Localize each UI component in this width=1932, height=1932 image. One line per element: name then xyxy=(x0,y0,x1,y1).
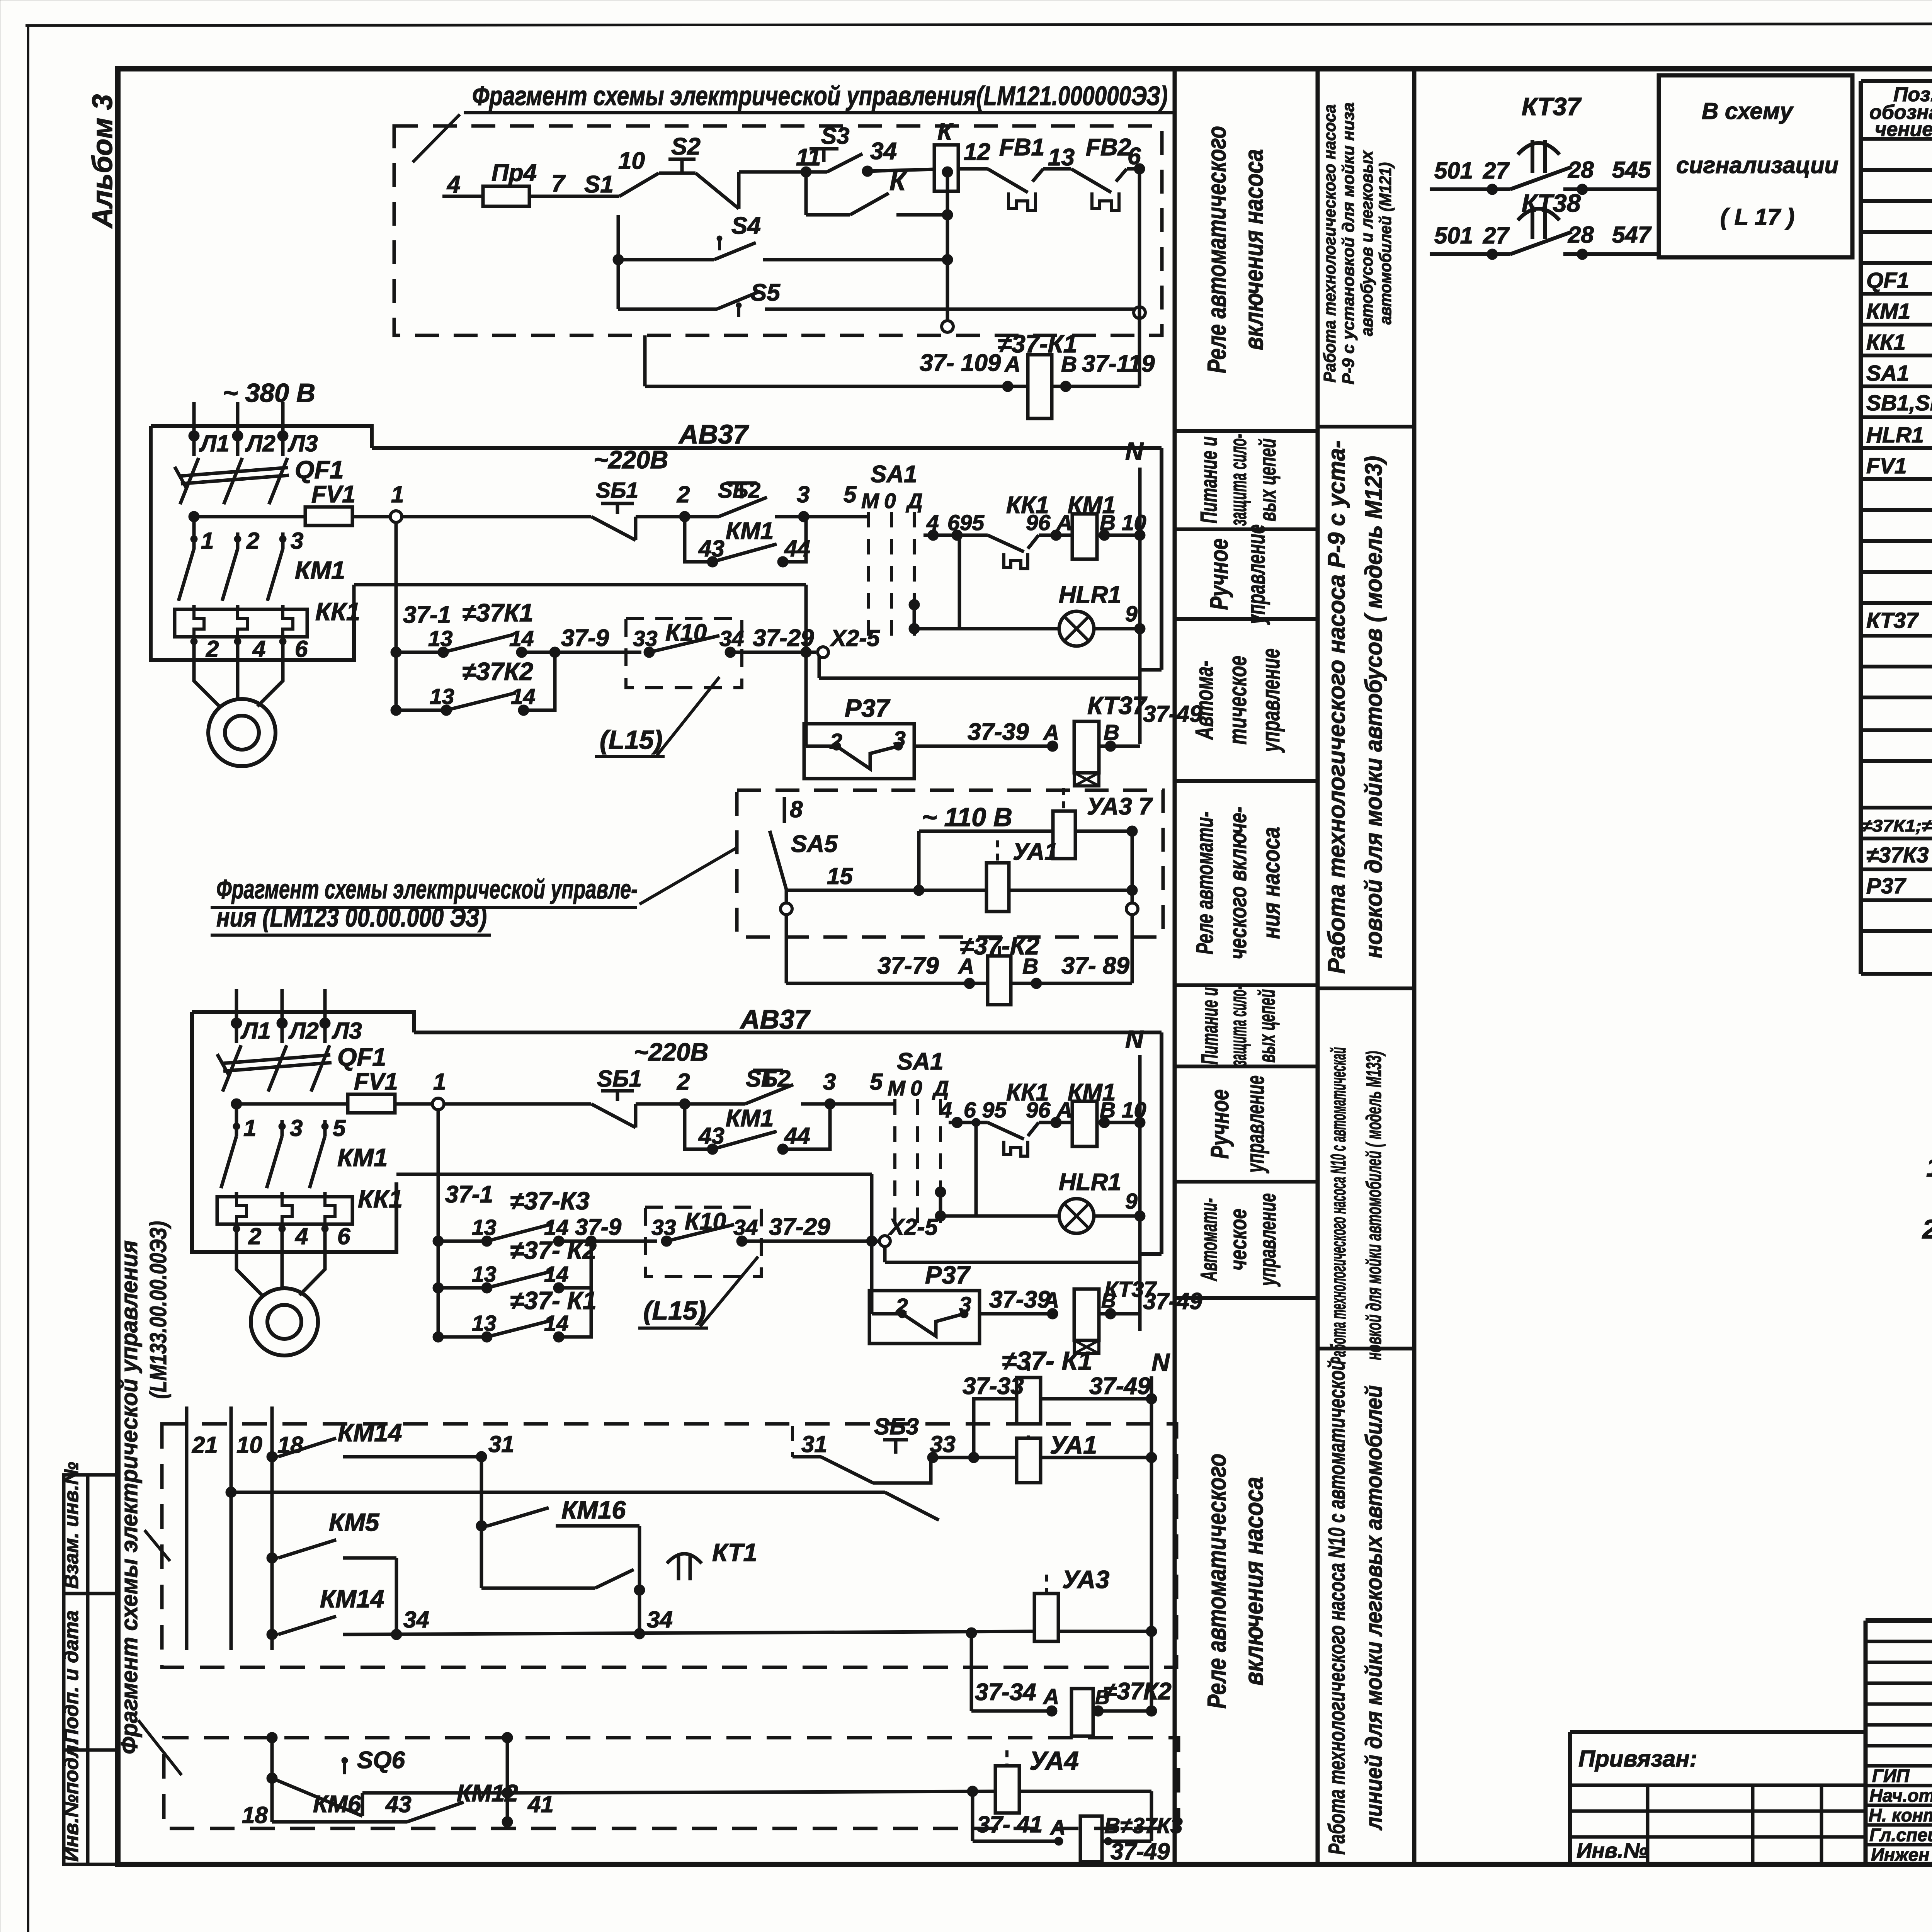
node 9 c2 xyxy=(1134,1211,1145,1221)
category separator y=3359 xyxy=(1175,1296,1318,1300)
svg-text:37-79: 37-79 xyxy=(878,952,939,979)
node 27 KT37 xyxy=(1487,184,1498,195)
svg-text:FV1: FV1 xyxy=(354,1068,398,1095)
enclosure2 top xyxy=(192,1012,414,1032)
svg-text:А: А xyxy=(1049,1815,1066,1839)
svg-text:Реле автоматического: Реле автоматического xyxy=(1202,126,1231,373)
svg-text:6: 6 xyxy=(1128,143,1141,170)
relay coil 37-K1 bottom xyxy=(1017,1378,1041,1424)
UA1 branch riser xyxy=(917,831,921,890)
AB37 box1 top xyxy=(372,446,1162,450)
wire SB2 to 3 c2 xyxy=(801,1102,830,1106)
SA5 top stub xyxy=(783,797,786,823)
contact 37K1 b xyxy=(516,647,527,658)
wire 37-109 xyxy=(645,385,1028,388)
svg-text:13: 13 xyxy=(472,1262,497,1287)
contact K blade xyxy=(850,193,889,215)
KT1 loop bottom xyxy=(481,1587,595,1590)
wire 31 sb3 xyxy=(793,1455,821,1459)
P37 contact zigzag c2 xyxy=(902,1314,964,1336)
svg-text:37-49: 37-49 xyxy=(1111,1838,1170,1864)
wire 37-49 link xyxy=(1041,1397,1151,1401)
svg-text:2 .: 2 . xyxy=(1922,1214,1932,1244)
svg-text:КМ1: КМ1 xyxy=(1866,299,1910,324)
svg-text:Реле автомати-: Реле автомати- xyxy=(1192,811,1218,954)
QF1 bar end tick xyxy=(175,467,186,488)
node row3 c2 xyxy=(433,1332,444,1342)
title leader LM121 xyxy=(413,114,460,162)
node row1 c1 xyxy=(391,647,401,658)
wire to X2-5 xyxy=(806,651,816,654)
contact 37K2 b xyxy=(518,705,529,716)
lamp to N xyxy=(1094,627,1140,631)
svg-text:АВ37: АВ37 xyxy=(678,419,749,449)
node 3 c2 xyxy=(825,1099,835,1109)
node B c2 xyxy=(1099,1117,1110,1128)
category separator y=2550 xyxy=(1175,983,1318,987)
category separator y=2021 xyxy=(1175,779,1318,783)
svg-text:УА1: УА1 xyxy=(1050,1431,1097,1459)
table row line y=209 xyxy=(1861,79,1932,83)
svg-text:547: 547 xyxy=(1612,222,1652,248)
svg-text:Питание и: Питание и xyxy=(1196,437,1222,524)
node 18 top xyxy=(267,1451,277,1462)
svg-text:КК1: КК1 xyxy=(1866,330,1906,355)
wire 37-79 xyxy=(786,982,988,985)
wire to K contact xyxy=(806,213,850,217)
SA1 D link c2 xyxy=(939,1192,942,1216)
svg-text:8: 8 xyxy=(790,796,803,822)
SB1 bar c2 xyxy=(601,1089,634,1093)
lamp HLR1 xyxy=(1059,611,1094,646)
category separator y=2760 xyxy=(1175,1065,1318,1068)
contact S3 blade xyxy=(827,154,862,172)
K10 a xyxy=(644,647,655,658)
node 96A xyxy=(1051,530,1061,541)
SA1 column O c2 xyxy=(916,1099,919,1229)
svg-text:S1: S1 xyxy=(584,171,614,198)
AB37 box2 bottom corner xyxy=(1140,1252,1162,1256)
row1 wire b xyxy=(522,651,555,654)
KK1 to box bottom xyxy=(192,637,196,660)
svg-text:К: К xyxy=(937,119,954,145)
svg-text:10: 10 xyxy=(618,148,645,174)
row2 wire a c2 xyxy=(438,1286,487,1290)
svg-text:управление: управление xyxy=(1241,1075,1269,1173)
KK1 to box bottom c2 xyxy=(281,1224,284,1247)
node 27 KT38 xyxy=(1487,249,1498,260)
svg-text:В: В xyxy=(1095,1686,1110,1709)
stamp row y=4518 xyxy=(1866,1744,1932,1748)
node B frag2 xyxy=(1031,978,1042,989)
fuse FV1 xyxy=(305,507,352,526)
node 28 KT38 xyxy=(1577,249,1588,260)
node A k1 xyxy=(1002,381,1013,392)
fragment dashed box4 LM133 part2 xyxy=(164,1738,1179,1828)
svg-text:5: 5 xyxy=(870,1069,883,1095)
node 34 xyxy=(862,166,873,177)
svg-text:Р37: Р37 xyxy=(1866,874,1906,898)
bypass left c2 xyxy=(685,1104,713,1149)
SA1 D link xyxy=(913,605,916,629)
S5 actuator dot xyxy=(736,303,742,308)
svg-text:(L15): (L15) xyxy=(643,1296,706,1325)
svg-text:Автома-: Автома- xyxy=(1190,661,1218,740)
node N row1 xyxy=(1134,530,1145,541)
svg-text:1: 1 xyxy=(433,1069,446,1095)
pushbutton S3 stem xyxy=(822,149,826,162)
svg-text:В схему: В схему xyxy=(1702,98,1794,124)
solenoid coil UA3 bottom xyxy=(1034,1594,1058,1641)
svg-text:13: 13 xyxy=(428,626,453,651)
row2 riser xyxy=(524,652,555,710)
node A frag2 xyxy=(964,978,975,989)
KM1 blade c2 xyxy=(221,1136,236,1188)
svg-text:Р-9 с установкой для мойки низ: Р-9 с установкой для мойки низа xyxy=(1339,102,1358,384)
phase drop L3 xyxy=(281,402,285,456)
svg-text:31: 31 xyxy=(801,1431,827,1457)
row1 wire a xyxy=(396,651,443,654)
svg-text:37-9: 37-9 xyxy=(561,625,609,651)
title underline LM121 xyxy=(464,111,1175,114)
bypass right c2 xyxy=(783,1104,830,1149)
row under lamp c2 xyxy=(885,1261,1140,1264)
SB1 stem xyxy=(616,503,619,514)
svg-text:695: 695 xyxy=(947,510,985,535)
phase node L2 xyxy=(232,430,243,441)
node S4 branch xyxy=(613,254,624,265)
svg-text:Л2: Л2 xyxy=(288,1018,319,1044)
usage separator y=1104 xyxy=(1318,425,1414,429)
UA3 stem dashed xyxy=(1062,788,1065,811)
svg-text:6: 6 xyxy=(295,636,308,662)
svg-text:14: 14 xyxy=(544,1311,568,1336)
SB1 riser c2 xyxy=(634,1104,638,1128)
wire UA4 to right xyxy=(1019,1790,1151,1793)
row2 wire a xyxy=(396,709,446,712)
wire 11 to S3 xyxy=(806,170,827,174)
37-K1 stem dashed xyxy=(1027,1364,1030,1378)
sheet left edge line xyxy=(27,26,29,1932)
node 37-9 c2 xyxy=(586,1236,597,1247)
svg-text:управление: управление xyxy=(1255,1193,1281,1287)
enclosure1 body xyxy=(151,426,354,660)
privyazan divider x=4264 xyxy=(1646,1785,1650,1864)
privyazan left edge xyxy=(1568,1732,1572,1864)
contact 37K2 blade c2 xyxy=(487,1271,552,1288)
row1 wire d xyxy=(730,651,806,654)
svg-text:≠37- К2: ≠37- К2 xyxy=(510,1236,597,1264)
wire 15 row xyxy=(786,889,986,892)
phase drop c2 L1 xyxy=(235,989,238,1043)
SB1 riser xyxy=(634,517,638,540)
enclosure2 body xyxy=(192,1012,396,1252)
contact 37K1 blade xyxy=(443,634,514,652)
svg-text:Инв.№: Инв.№ xyxy=(1577,1838,1648,1862)
phase L1 segment c2 xyxy=(235,1104,238,1136)
svg-text:34: 34 xyxy=(719,626,744,651)
row1 wire b c2 xyxy=(559,1240,591,1243)
vertical from node1 xyxy=(395,522,398,710)
neutral bus c1 xyxy=(1138,468,1142,744)
svg-text:2: 2 xyxy=(248,1223,261,1249)
wire 4 to fuse xyxy=(442,195,483,198)
KK1 riser c2 xyxy=(1028,1122,1039,1136)
vertical to P37 c2 xyxy=(870,1174,874,1314)
svg-text:2: 2 xyxy=(246,528,259,554)
37-K2 stem tick xyxy=(998,946,1001,956)
SB2 bar xyxy=(726,481,757,485)
switch SA5 blade xyxy=(770,831,786,889)
row3 wire a c2 xyxy=(438,1335,487,1339)
contact KM1 43-44 blade c2 xyxy=(713,1131,777,1149)
svg-text:SА1: SА1 xyxy=(871,461,917,488)
contact S4 blade xyxy=(714,243,756,260)
node 6 c2 xyxy=(972,1118,980,1127)
SA1 D contact2 xyxy=(909,623,920,634)
svg-text:N: N xyxy=(1125,437,1144,465)
svg-text:21: 21 xyxy=(192,1432,218,1458)
svg-text:5: 5 xyxy=(333,1115,346,1141)
svg-text:7: 7 xyxy=(551,170,566,197)
QF1 blade c2 xyxy=(223,1045,241,1092)
svg-text:27: 27 xyxy=(1483,223,1510,248)
svg-text:ческого включе-: ческого включе- xyxy=(1225,807,1252,959)
motor lead 3 xyxy=(257,660,283,706)
S5 actuator stem xyxy=(737,308,740,317)
svg-text:Д: Д xyxy=(932,1076,949,1100)
node 44 xyxy=(777,556,788,567)
svg-text:1. Коммутационная диаграмма: 1. Коммутационная диаграмма манометра Р3… xyxy=(1926,1152,1932,1182)
UA4 stem xyxy=(1005,1750,1009,1766)
KK1 bottom terminal c2 xyxy=(321,1225,328,1232)
KT37 delay box c2 xyxy=(1074,1340,1099,1354)
KK1 to box bottom xyxy=(236,637,240,660)
KK1 heater box xyxy=(175,609,307,637)
phase segment c2 xyxy=(323,1120,327,1136)
KK1 element c2 xyxy=(236,1197,247,1224)
bus line 18 xyxy=(270,1406,274,1650)
AB37 box2 top xyxy=(414,1031,1162,1034)
KK1 aux hook c2 xyxy=(1004,1141,1028,1156)
node L1 tap xyxy=(189,511,199,522)
svg-text:96 А: 96 А xyxy=(1026,1098,1072,1122)
time relay coil KT37 c1 xyxy=(1074,721,1099,773)
node row1 c2 xyxy=(433,1236,444,1247)
KK1 heater box c2 xyxy=(217,1197,352,1224)
privyazan divider x=4536 xyxy=(1751,1785,1755,1864)
svg-text:14: 14 xyxy=(544,1262,568,1287)
svg-text:КТ37: КТ37 xyxy=(1087,691,1148,719)
bypass right xyxy=(783,517,806,562)
table vertical x=4816 xyxy=(1859,81,1863,974)
svg-text:501: 501 xyxy=(1434,158,1473,184)
svg-text:37-119: 37-119 xyxy=(1082,350,1155,377)
svg-text:(L15): (L15) xyxy=(600,725,662,755)
motor lead 1 c2 xyxy=(236,1247,262,1295)
svg-text:линией для мойки легковых авт: линией для мойки легковых автомобилей xyxy=(1361,1385,1387,1831)
KM1 top terminal xyxy=(279,536,286,543)
UA3 stem bottom xyxy=(1045,1575,1048,1594)
svg-text:SБ3: SБ3 xyxy=(874,1413,919,1439)
privyazan divider x=4714 xyxy=(1820,1785,1823,1864)
svg-text:А: А xyxy=(1043,1288,1059,1313)
contact KM5 blade xyxy=(278,1540,336,1558)
node UA3 branch bottom xyxy=(966,1628,977,1638)
table row line y=2090 xyxy=(1861,806,1932,810)
svg-text:S3: S3 xyxy=(821,123,849,149)
svg-text:0: 0 xyxy=(910,1076,922,1100)
svg-text:В: В xyxy=(1104,720,1119,745)
svg-text:14: 14 xyxy=(509,626,534,651)
node 44 c2 xyxy=(777,1144,788,1155)
svg-text:Альбом 3: Альбом 3 xyxy=(87,94,118,229)
phase drop c2 L3 xyxy=(323,989,327,1043)
svg-text:Р37: Р37 xyxy=(845,694,891,722)
svg-text:УА3: УА3 xyxy=(1062,1565,1109,1594)
wire KT37 to N c1 xyxy=(1099,745,1140,748)
svg-text:Пр4: Пр4 xyxy=(492,160,537,186)
svg-text:S2: S2 xyxy=(671,133,701,160)
usage column right border xyxy=(1412,69,1417,1864)
KM1 lower stub xyxy=(281,605,285,609)
contact KT1 blade xyxy=(595,1570,634,1588)
leader line to box3 xyxy=(145,1530,170,1561)
svg-text:Работа технологического насоса: Работа технологического насоса Р-9 с уст… xyxy=(1323,440,1350,974)
QF1 trip bar b xyxy=(181,475,289,484)
P37 term3 c2 xyxy=(960,1310,968,1318)
svg-text:Л3: Л3 xyxy=(332,1018,362,1044)
stamp row y=4570 xyxy=(1866,1764,1932,1768)
node N 3620 xyxy=(1146,1393,1157,1404)
svg-text:А: А xyxy=(1043,1684,1059,1709)
svg-text:АВ37: АВ37 xyxy=(740,1004,811,1034)
svg-text:37- 109: 37- 109 xyxy=(920,350,1001,376)
svg-text:31: 31 xyxy=(488,1431,514,1457)
contact KM14 blade b xyxy=(278,1616,336,1634)
pushbutton S2 stem xyxy=(680,159,684,173)
KM1 blade xyxy=(267,549,283,601)
title block top xyxy=(1866,1618,1932,1623)
stamp row y=4248 xyxy=(1866,1640,1932,1643)
node L1 tap c2 xyxy=(231,1099,242,1109)
node 6 c1 xyxy=(952,530,963,541)
svg-text:S4: S4 xyxy=(731,213,761,239)
stamp vertical x=4828 xyxy=(1864,1621,1868,1864)
QF1 trip bar b c2 xyxy=(223,1063,332,1071)
AB37 box1 bottom corner xyxy=(1140,668,1162,672)
svg-text:защита сило-: защита сило- xyxy=(1225,434,1251,526)
KK1 bottom terminal c2 xyxy=(279,1225,286,1232)
table row line y=1890 xyxy=(1861,728,1932,732)
node 6 xyxy=(1134,163,1145,174)
node circle 1 c2 xyxy=(432,1098,444,1110)
KM1 top terminal c2 xyxy=(279,1123,286,1130)
svg-text:9: 9 xyxy=(1125,1189,1138,1214)
SA5 down to 37-79 xyxy=(785,915,788,983)
SB3 stem xyxy=(894,1440,898,1454)
node row2 c2 xyxy=(433,1282,444,1293)
node UA1 in xyxy=(968,1452,979,1463)
wire KT37 to N c2 xyxy=(1099,1312,1140,1316)
wire SB1 to 2 c2 xyxy=(636,1102,685,1106)
svg-text:КМ16: КМ16 xyxy=(561,1496,626,1524)
P37 term3 xyxy=(894,742,903,750)
wire 37-119 xyxy=(1052,385,1139,388)
wire 2 to SB2 c2 xyxy=(685,1102,745,1106)
lamp to N c2 xyxy=(1094,1214,1140,1218)
node UA1 branch xyxy=(913,885,924,896)
wire 33 to UA1 xyxy=(933,1456,1017,1459)
wire S4 row xyxy=(618,258,714,262)
KK1 bottom terminal xyxy=(279,638,286,645)
motor lead 2 xyxy=(236,660,240,700)
stamp row y=4302 xyxy=(1866,1661,1932,1664)
wire fuse to S1 xyxy=(529,195,619,198)
svg-text:37-39: 37-39 xyxy=(968,719,1029,745)
wire 501-27 KT38 xyxy=(1430,252,1510,256)
KM1 lower stub xyxy=(236,605,240,609)
KM5 drop xyxy=(395,1558,398,1634)
wire FV1 to 1 c2 xyxy=(395,1102,432,1106)
node 34 b xyxy=(634,1628,645,1639)
node UA4 in xyxy=(967,1786,978,1797)
row under lamp xyxy=(819,677,1140,680)
SA1 column D xyxy=(913,512,916,641)
KK1 element c2 xyxy=(282,1197,292,1224)
KK1 element c2 xyxy=(325,1197,335,1224)
svg-text:Х2-5: Х2-5 xyxy=(830,625,880,651)
svg-text:15: 15 xyxy=(827,863,853,889)
solenoid coil UA1 bottom xyxy=(1017,1438,1041,1483)
wire 34 long row xyxy=(343,1631,1034,1634)
svg-text:SА1: SА1 xyxy=(897,1048,944,1075)
SA1 column M xyxy=(867,512,870,641)
SB2 stem c2 xyxy=(766,1070,770,1086)
table row line y=1725 xyxy=(1861,665,1932,668)
table row line y=1000 xyxy=(1861,384,1932,388)
svg-text:управление: управление xyxy=(1242,524,1270,625)
K10 a c2 xyxy=(661,1236,672,1247)
wire 37-39 c2 xyxy=(980,1312,1053,1316)
wire 3 to SA1 c2 xyxy=(830,1102,895,1106)
neutral bus bottom xyxy=(1150,1376,1153,1711)
KM1 blade c2 xyxy=(267,1136,282,1188)
FB2 thermal hook xyxy=(1092,192,1119,211)
KT38 time contact symbol xyxy=(1518,206,1560,239)
KT1 time contact symbol xyxy=(667,1554,702,1580)
drop to 37-34 xyxy=(970,1631,973,1711)
svg-text:Работа технологического насоса: Работа технологического насоса N10 с авт… xyxy=(1326,1047,1350,1364)
stamp row y=4672 xyxy=(1866,1804,1932,1807)
svg-text:3: 3 xyxy=(290,1115,303,1141)
category separator y=1115 xyxy=(1175,429,1318,433)
relay coil 37K2 bottom xyxy=(1071,1689,1093,1736)
contact K10 blade c2 xyxy=(667,1225,734,1241)
svg-text:КТ37: КТ37 xyxy=(1522,92,1582,121)
svg-text:14: 14 xyxy=(511,684,535,709)
phase L1 segment xyxy=(192,517,196,549)
SA1 column M c2 xyxy=(893,1099,896,1229)
SB2 blade c2 xyxy=(745,1085,793,1104)
contact 37K1 blade c2 xyxy=(487,1320,552,1337)
node 10 bus xyxy=(226,1487,236,1498)
category separator y=3058 xyxy=(1175,1180,1318,1184)
contact S2 riser xyxy=(737,172,741,209)
svg-text:4: 4 xyxy=(446,171,460,198)
svg-text:тическое: тическое xyxy=(1223,656,1252,745)
wire 37-39 c1 xyxy=(914,745,1053,748)
